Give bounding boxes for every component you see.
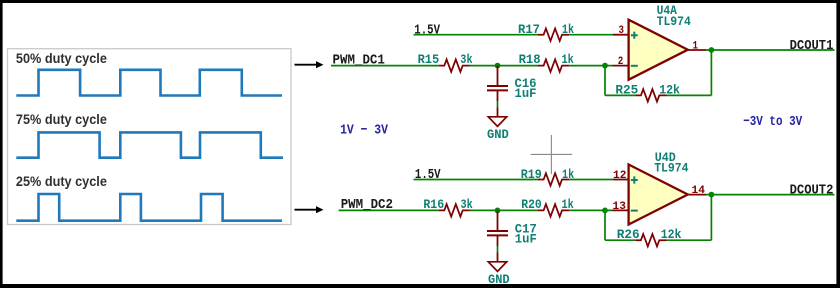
capacitor C17 (487, 230, 508, 232)
svg-text:1uF: 1uF (515, 231, 537, 246)
svg-text:3: 3 (619, 25, 625, 37)
svg-text:1uF: 1uF (515, 86, 537, 101)
ground symbol (top) (488, 117, 506, 127)
pin 14 stub (688, 194, 706, 196)
waveform 50% duty cycle (16, 70, 282, 96)
svg-text:PWM_DC1: PWM_DC1 (333, 53, 385, 68)
waveform 75% duty cycle (16, 132, 283, 157)
wire DCOUT1 (706, 49, 835, 51)
capacitor C16 (487, 85, 508, 87)
wire DCOUT2 (706, 194, 835, 196)
border frame (0, 0, 840, 3)
minus input symbol (U4D) (631, 210, 638, 212)
resistor R17 (538, 29, 569, 41)
svg-text:1.5V: 1.5V (415, 168, 441, 183)
svg-text:R26: R26 (617, 227, 640, 242)
svg-text:PWM_DC2: PWM_DC2 (341, 198, 393, 213)
wire PWM_DC2 (339, 209, 439, 211)
svg-text:1: 1 (693, 41, 699, 53)
feedback wire right (bottom) (667, 239, 712, 241)
feedback wire left (top) (605, 94, 635, 96)
svg-text:GND: GND (487, 127, 509, 142)
plus input symbol (U4D) (631, 176, 638, 183)
svg-text:14: 14 (692, 185, 706, 197)
resistor R19 (538, 173, 569, 185)
svg-text:DCOUT1: DCOUT1 (790, 39, 834, 54)
wire R15 to R18 (470, 65, 538, 67)
ground symbol (bottom) (488, 262, 506, 272)
svg-text:2: 2 (618, 56, 624, 68)
wire 1.5V rail (top) (414, 34, 539, 36)
svg-text:TL974: TL974 (654, 161, 689, 175)
node junction at pin 13 (602, 208, 608, 214)
node junction at output (bottom) (709, 192, 715, 198)
svg-text:GND: GND (488, 272, 510, 287)
svg-text:DCOUT2: DCOUT2 (790, 184, 834, 199)
wire 1.5V rail (bottom) (414, 179, 539, 181)
arrow to PWM_DC1 (295, 64, 318, 66)
svg-text:R17: R17 (518, 22, 540, 37)
resistor R16 (439, 204, 470, 216)
pin 2 stub (613, 65, 629, 67)
wire junction to C17 (497, 210, 499, 231)
wire pin13 node down to feedback (604, 210, 606, 240)
waveform 25% duty cycle (16, 194, 282, 221)
svg-text:TL974: TL974 (657, 15, 692, 29)
svg-text:50% duty cycle: 50% duty cycle (16, 51, 107, 66)
svg-text:1V − 3V: 1V − 3V (340, 122, 388, 138)
svg-text:−3V to 3V: −3V to 3V (743, 114, 802, 130)
resistor R25 (635, 89, 666, 101)
svg-text:25% duty cycle: 25% duty cycle (16, 174, 107, 189)
svg-text:13: 13 (613, 201, 627, 213)
svg-text:R18: R18 (519, 52, 541, 67)
wire junction to C16 (497, 66, 499, 86)
node junction at output (top) (709, 47, 715, 53)
plus input symbol (U4A) (631, 32, 638, 39)
op-amp U4A (629, 20, 688, 80)
wire R18 to pin 2 (569, 65, 612, 67)
pin 1 stub (688, 49, 706, 51)
wire R16 to R20 (470, 209, 538, 211)
feedback wire right (top) (667, 94, 712, 96)
resistor R26 (635, 234, 666, 246)
resistor R15 (439, 59, 470, 71)
svg-text:1.5V: 1.5V (414, 23, 440, 38)
wire C16 to GND (497, 90, 499, 101)
waveform panel box (8, 49, 292, 225)
pin 12 stub (613, 179, 629, 181)
pin 13 stub (613, 209, 629, 211)
node junction at C17 (bottom) (495, 208, 501, 214)
svg-text:R15: R15 (418, 52, 440, 67)
wire R17 to pin 3 (569, 34, 613, 36)
wire C17 to GND (497, 235, 499, 246)
resistor R20 (538, 204, 569, 216)
wire PWM_DC1 (331, 65, 439, 67)
wire R20 to pin 13 (569, 209, 612, 211)
node junction at C16 (top) (495, 63, 501, 69)
svg-text:R19: R19 (521, 167, 542, 182)
node junction at pin 2 (602, 63, 608, 69)
svg-text:R16: R16 (423, 197, 444, 212)
svg-text:75% duty cycle: 75% duty cycle (16, 112, 107, 127)
svg-text:R20: R20 (521, 197, 542, 212)
svg-text:R25: R25 (615, 82, 638, 97)
svg-text:12: 12 (613, 170, 627, 182)
feedback wire left (bottom) (605, 239, 635, 241)
arrow to PWM_DC2 (295, 209, 318, 211)
wire pin2 node down to feedback (604, 66, 606, 96)
pin 3 stub (613, 34, 629, 36)
wire R19 to pin 12 (569, 179, 613, 181)
crosshair cursor (531, 135, 573, 174)
op-amp U4D (629, 165, 688, 225)
resistor R18 (538, 59, 569, 71)
minus input symbol (U4A) (631, 65, 638, 67)
